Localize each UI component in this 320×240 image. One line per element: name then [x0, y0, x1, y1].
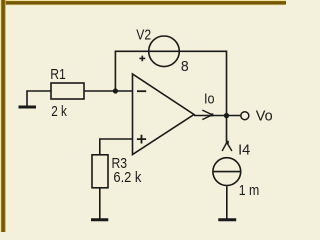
I4 arrow tails	[222, 143, 232, 152]
window border left	[0, 0, 6, 232]
ground G3 bar	[218, 218, 236, 221]
I4 arrow tip square	[226, 141, 229, 144]
ground G1 bar	[19, 106, 37, 109]
wire I4 to ground	[226, 186, 228, 218]
op-amp plus sign	[137, 135, 146, 144]
svg-text:1 m: 1 m	[239, 182, 260, 198]
op-amp minus sign	[137, 90, 146, 92]
op-amp U1	[133, 74, 195, 155]
svg-text:Io: Io	[204, 91, 215, 107]
svg-text:2 k: 2 k	[51, 103, 67, 119]
svg-text:Vo: Vo	[256, 109, 273, 125]
output terminal circle	[241, 112, 249, 120]
resistor R1	[51, 83, 84, 99]
Io arrow	[202, 110, 212, 120]
Io arrow tip square	[210, 113, 213, 116]
wire V2 to right rail	[180, 51, 227, 141]
svg-text:V2: V2	[136, 26, 151, 42]
resistor R3	[92, 155, 108, 188]
ground G2 bar	[91, 218, 108, 221]
svg-text:I4: I4	[238, 143, 250, 159]
wire feedback riser	[115, 51, 148, 91]
wire R3 to ground	[99, 188, 101, 219]
wire ground to R1	[27, 91, 51, 107]
svg-text:R1: R1	[50, 66, 66, 82]
wire plus input	[100, 139, 133, 155]
svg-text:6.2 k: 6.2 k	[113, 169, 141, 185]
junction node at R1/feedback	[113, 88, 118, 93]
current source I4	[213, 158, 241, 186]
I4 diameter line	[213, 171, 241, 173]
svg-text:8: 8	[181, 59, 189, 75]
junction node at output	[224, 113, 229, 118]
wire R1 to op-amp minus input	[84, 90, 133, 92]
wire through V2	[148, 50, 180, 52]
voltage source V2	[149, 36, 180, 67]
window border top	[0, 0, 286, 5]
wire op-amp output	[194, 115, 241, 117]
V2 plus sign	[139, 56, 145, 62]
